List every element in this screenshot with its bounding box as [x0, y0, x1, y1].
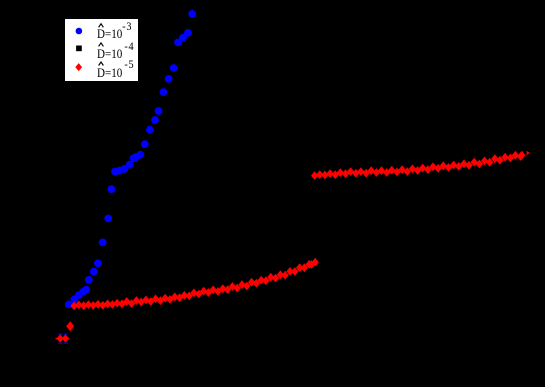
legend label D=10^-4: [97, 46, 134, 62]
hat over D row 1: [99, 24, 104, 28]
legend marker blue circle: [76, 28, 83, 35]
legend label D=10^-5: [97, 65, 134, 81]
overlapping red/blue marker cluster bottom-left: [56, 333, 70, 344]
legend label D=10^-3: [97, 26, 132, 42]
hat over D row 2: [99, 43, 104, 47]
red data series D=10^-5 lower branch (diamonds): [70, 258, 318, 311]
hat over D row 3: [99, 62, 104, 66]
red data series D=10^-5 upper branch (diamonds): [311, 151, 530, 180]
blue data series D=10^-3 (circles): [65, 10, 196, 308]
legend marker black square: [76, 46, 82, 52]
legend marker red diamond: [75, 63, 82, 71]
legend box: [64, 18, 139, 82]
red outlier diamond: [66, 321, 74, 331]
